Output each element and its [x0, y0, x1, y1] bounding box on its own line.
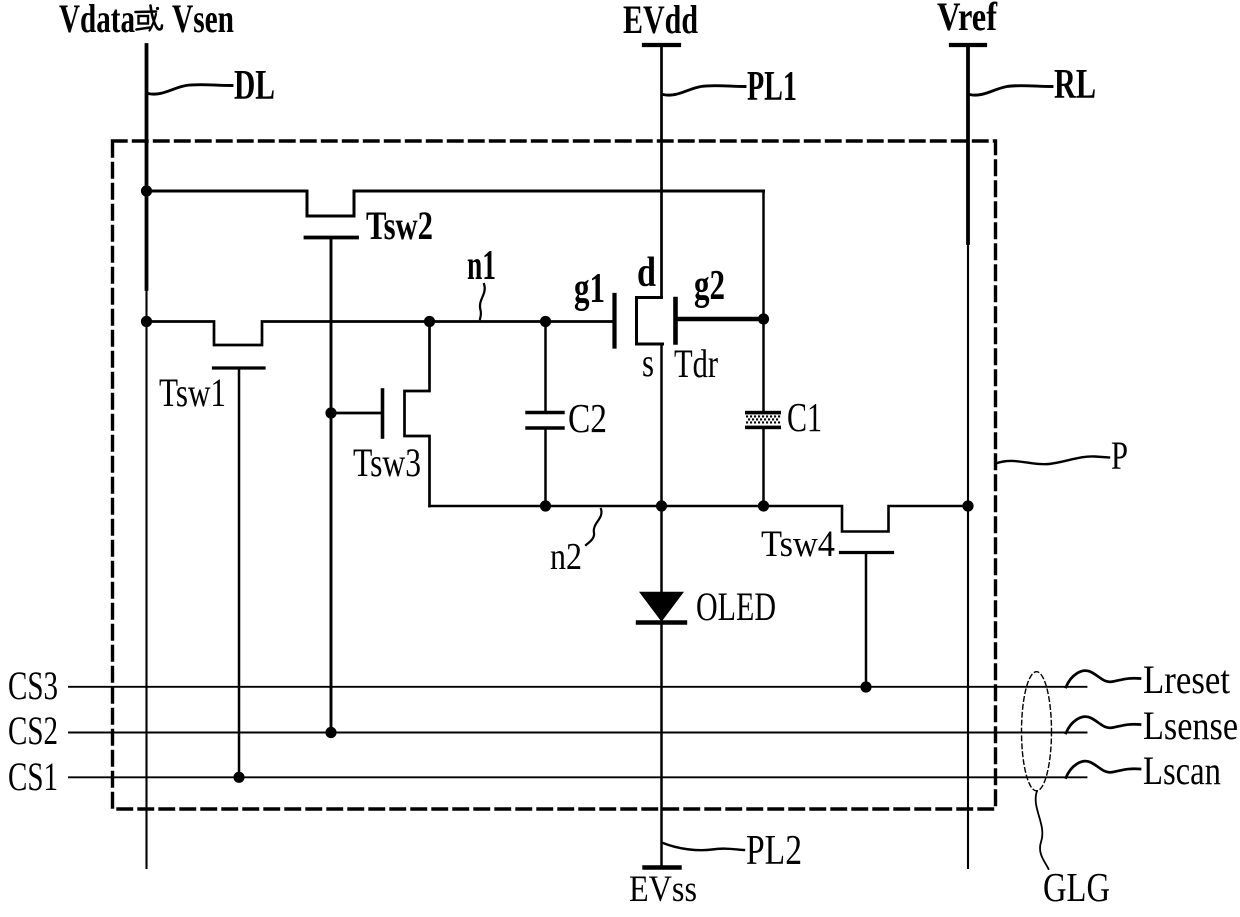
transistor Tsw4 gate bar — [841, 551, 893, 554]
wire: top wire from DL through Tsw2 channel to right drop — [147, 191, 764, 216]
svg-text:Vref: Vref — [937, 0, 998, 39]
svg-text:CS2: CS2 — [8, 708, 58, 753]
leader squiggle PL2 — [663, 843, 744, 850]
node dot Tsw3 gate line/CS2 — [325, 727, 336, 738]
transistor Tdr gate bar g1 — [612, 295, 616, 347]
transistor Tsw3 channel and source/drain wires — [405, 322, 430, 507]
svg-text:g2: g2 — [694, 263, 725, 309]
wire: n1 wire from DL through Tsw1 channel to g1 — [147, 322, 613, 346]
leader squiggle PL1 — [663, 86, 745, 96]
capacitor C2 bottom stem — [544, 430, 547, 507]
transistor Tsw2 gate stem down to CS2 — [330, 238, 333, 733]
wire: Tdr source down to n2 — [660, 344, 663, 506]
transistor Tsw1 gate bar — [214, 366, 265, 369]
node dot n2/Vref — [962, 500, 973, 511]
svg-text:DL: DL — [234, 63, 275, 109]
scan line CS1 (Lscan) — [69, 776, 1087, 778]
svg-text:PL1: PL1 — [747, 64, 797, 110]
transistor Tdr gate bar g2 — [673, 299, 678, 343]
wire: right vertical drop to g2 node — [762, 191, 765, 412]
capacitor C2 top stem — [544, 322, 547, 412]
svg-text:Lreset: Lreset — [1143, 657, 1230, 702]
node dot Tsw4 stem/CS3 — [860, 681, 871, 692]
svg-text:RL: RL — [1054, 62, 1096, 108]
wire: g2 gate wire to C1 node — [677, 317, 764, 321]
label CJK character 或 — [136, 6, 163, 31]
svg-text:C1: C1 — [787, 394, 822, 440]
leader squiggle n1 — [480, 284, 485, 319]
svg-text:Vdata: Vdata — [59, 0, 135, 41]
diode OLED triangle — [641, 593, 683, 621]
node dot DL/top wire — [141, 185, 152, 196]
scan line CS2 (Lsense) — [69, 732, 1087, 734]
Vref top terminal bar — [951, 43, 985, 47]
reference line RL vertical (Vref) thick segment — [966, 45, 970, 243]
svg-text:OLED: OLED — [696, 584, 776, 629]
svg-text:EVdd: EVdd — [623, 0, 698, 42]
leader squiggle RL — [970, 86, 1053, 96]
svg-text:g1: g1 — [574, 266, 605, 312]
diode OLED cathode bar — [638, 620, 685, 624]
leader squiggle n2 — [586, 509, 601, 545]
transistor Tsw2 gate bar — [306, 236, 358, 240]
data line DL vertical (Vdata/Vsen) thick segment — [145, 45, 149, 289]
node dot n1/C2 — [540, 316, 551, 327]
wire: C1 bottom stem to n2 — [762, 428, 765, 507]
power line PL2 wire down to EVss — [660, 625, 663, 868]
transistor Tsw3 gate wire from Tsw2 stem — [331, 412, 381, 415]
node dot Tdr source/n2 — [656, 500, 667, 511]
transistor Tsw4 gate stem down to CS3 — [865, 553, 868, 688]
svg-text:Vsen: Vsen — [172, 0, 234, 41]
node dot C1/n2 — [758, 500, 769, 511]
svg-text:CS1: CS1 — [8, 754, 58, 799]
EVss bottom terminal bar — [645, 865, 680, 869]
scan line CS3 (Lreset) — [69, 686, 1087, 688]
node dot DL/n1 — [141, 316, 152, 327]
node dot Tsw2 stem/Tsw3 gate — [325, 407, 336, 418]
svg-text:Tsw4: Tsw4 — [761, 524, 835, 565]
svg-text:EVss: EVss — [629, 869, 697, 910]
node dot Tsw1 stem/CS1 — [233, 772, 244, 783]
leader squiggle DL — [148, 85, 232, 95]
svg-text:s: s — [642, 340, 654, 385]
svg-text:Lsense: Lsense — [1143, 703, 1238, 748]
svg-text:Tsw2: Tsw2 — [366, 203, 433, 248]
leader squiggle GLG — [1036, 791, 1049, 869]
transistor Tsw1 gate stem down to CS1 — [238, 368, 241, 777]
node dot n1/Tsw3 drain — [424, 316, 435, 327]
wire: n2 wire from Tsw3 source to Vref through Tsw4 channel — [430, 506, 969, 532]
power line PL1 vertical (EVdd) — [660, 45, 663, 298]
svg-text:C2: C2 — [568, 395, 607, 441]
capacitor C2 plates — [527, 411, 563, 414]
EVdd top terminal bar — [644, 43, 679, 47]
svg-text:Tsw3: Tsw3 — [353, 440, 421, 485]
transistor Tdr channel — [637, 298, 663, 345]
leader squiggle Lsense — [1066, 717, 1140, 733]
node dot g2/C1 — [758, 313, 769, 324]
reference line RL vertical thin segment — [967, 243, 969, 868]
data line DL vertical thin segment — [145, 289, 147, 868]
svg-text:GLG: GLG — [1043, 864, 1110, 910]
grouping ellipse GLG — [1022, 672, 1052, 791]
svg-text:Lscan: Lscan — [1143, 748, 1221, 793]
svg-text:P: P — [1111, 433, 1128, 478]
svg-text:Tdr: Tdr — [674, 341, 718, 386]
svg-text:PL2: PL2 — [746, 828, 802, 874]
svg-text:d: d — [637, 250, 656, 296]
capacitor C1 hatched block — [745, 411, 781, 429]
svg-text:CS3: CS3 — [8, 663, 58, 708]
leader squiggle Lreset — [1066, 671, 1140, 687]
pixel boundary P dashed box — [113, 141, 996, 809]
leader squiggle P — [997, 456, 1109, 464]
node dot C2/n2 — [540, 500, 551, 511]
leader squiggle Lscan — [1066, 761, 1140, 777]
svg-text:n1: n1 — [467, 243, 496, 289]
diode OLED anode wire — [660, 506, 663, 593]
svg-text:Tsw1: Tsw1 — [159, 370, 226, 415]
transistor Tsw3 gate bar — [381, 390, 385, 437]
svg-text:n2: n2 — [550, 536, 582, 578]
